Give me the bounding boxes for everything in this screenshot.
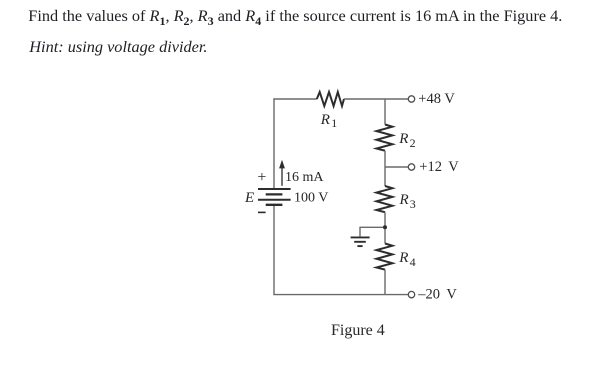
terminal +12V circle	[408, 164, 414, 170]
resistor R3	[377, 186, 393, 212]
svg-text:2: 2	[410, 136, 416, 150]
svg-text:R: R	[398, 250, 408, 266]
junction dot at ground node	[383, 225, 387, 229]
wire +12V stub	[385, 166, 408, 168]
wire left vertical upper (E+ to top-left corner)	[273, 99, 275, 188]
wire top right segment to +48V terminal	[344, 98, 408, 100]
wire top left segment	[273, 98, 317, 100]
svg-text:3: 3	[410, 197, 416, 211]
svg-text:1: 1	[331, 116, 337, 130]
label minus (battery negative)	[258, 211, 266, 213]
problem statement line 1	[28, 8, 562, 24]
resistor R2	[377, 125, 393, 151]
terminal -20V circle	[408, 291, 414, 297]
svg-text:+48 V: +48 V	[418, 91, 455, 107]
wire ground stub	[360, 227, 385, 236]
wire left vertical lower (E- to bottom-left corner)	[273, 206, 275, 295]
terminal +48V circle	[408, 96, 414, 102]
wire R4 to bottom wire	[384, 270, 386, 295]
resistor R4	[377, 244, 393, 270]
wire bottom stub to -20V terminal	[385, 294, 408, 296]
svg-text:Figure 4: Figure 4	[331, 322, 385, 339]
wire R3 to ground junction	[384, 212, 386, 227]
svg-text:+12 V: +12 V	[419, 159, 459, 175]
svg-text:E: E	[244, 190, 254, 206]
wire R2 to +12V junction	[384, 151, 386, 167]
current arrow 16 mA shaft	[281, 167, 283, 186]
wire bottom horizontal	[273, 294, 385, 296]
svg-text:+: +	[257, 169, 266, 186]
svg-text:16 mA: 16 mA	[285, 170, 324, 185]
svg-text:R: R	[398, 131, 408, 147]
ground	[351, 237, 370, 246]
svg-text:100 V: 100 V	[294, 191, 328, 206]
svg-text:–20 V: –20 V	[417, 287, 457, 303]
wire +12V junction to R3	[384, 167, 386, 186]
resistor R1	[317, 92, 344, 106]
battery E plates	[258, 189, 291, 205]
svg-text:R: R	[399, 192, 409, 208]
current arrow head	[279, 160, 285, 169]
svg-text:R: R	[320, 112, 330, 128]
hint line	[29, 39, 207, 55]
svg-text:4: 4	[410, 255, 416, 269]
wire node A drop (top junction to R2)	[384, 99, 386, 125]
wire ground junction to R4	[384, 227, 386, 243]
